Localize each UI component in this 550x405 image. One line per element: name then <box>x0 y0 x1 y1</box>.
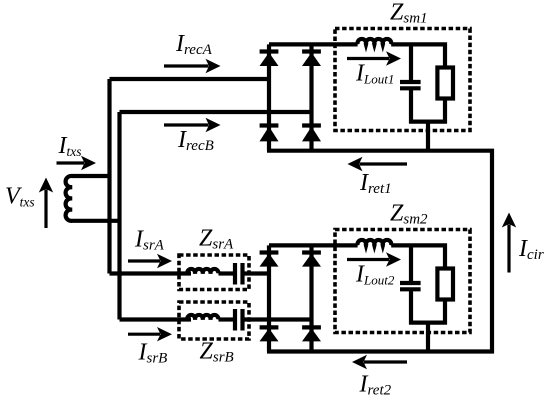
diode D6 bottom bridge upper-right <box>302 253 321 267</box>
arrow ILout1 <box>347 51 401 65</box>
resistor R2 <box>437 269 453 300</box>
svg-text:Vtxs: Vtxs <box>5 184 35 210</box>
arrow Icir <box>502 213 516 273</box>
wire: bus B (node B vertical) <box>117 112 121 320</box>
diode D4 top bridge lower-right <box>302 126 321 142</box>
inductor LsrB <box>187 315 218 320</box>
wire: bottom bridge positive rail into Zsm2 <box>269 243 358 247</box>
wire: ZsrB output to bottom bridge right leg <box>245 317 312 321</box>
arrow IsrA <box>128 254 172 268</box>
wire: top bridge left leg <box>267 44 271 150</box>
svg-text:ZsrB: ZsrB <box>200 339 234 366</box>
capacitor CsrA <box>235 263 243 285</box>
svg-text:Itxs: Itxs <box>58 133 82 159</box>
wire: Zsm1 bottom joining wire <box>409 119 447 123</box>
wire: Zsm2 bottom joining wire <box>409 321 447 325</box>
wire: top bridge right leg <box>309 44 313 150</box>
capacitor C2 <box>400 283 421 289</box>
svg-text:Iret1: Iret1 <box>359 170 392 197</box>
inductor Lout1 <box>357 39 391 44</box>
wire: LsrB to CsrB <box>219 317 234 321</box>
inductor Lout2 <box>357 240 391 245</box>
capacitor C1 <box>400 82 421 88</box>
dashed box Zsm1 <box>335 29 470 131</box>
wire: Lout1 to node, cap branch, resistor branch top <box>391 44 445 67</box>
arrow Iret2 <box>352 355 407 369</box>
diode D1 top bridge upper-left <box>260 52 279 67</box>
wire: bus A (node A vertical) <box>107 79 111 274</box>
wire: capacitor C1 top lead <box>409 44 413 80</box>
svg-text:ILout2: ILout2 <box>355 262 395 288</box>
dashed box ZsrA <box>179 255 249 290</box>
wire: IsrA feed into ZsrA <box>110 271 192 275</box>
svg-text:IrecA: IrecA <box>175 31 213 58</box>
wire: LsrA to CsrA <box>219 271 234 275</box>
wire: resistor R2 bottom lead <box>443 300 447 325</box>
wire: top bridge positive rail into Zsm1 <box>269 42 358 46</box>
wire: IsrB feed into ZsrB <box>120 317 192 321</box>
wire: bottom bridge left leg <box>267 245 271 351</box>
diode D3 top bridge lower-left <box>260 126 279 142</box>
diode D7 bottom bridge lower-left <box>260 327 279 341</box>
arrow IrecB <box>164 118 221 132</box>
svg-text:ZsrA: ZsrA <box>199 226 234 253</box>
transformer secondary coil Ltxs <box>66 176 122 221</box>
wire: Zsm2 output down to Iret2 rail <box>426 323 430 352</box>
wire: Iret1 rail / Icir bus / Iret2 rail <box>267 151 492 352</box>
svg-text:IrecB: IrecB <box>177 127 214 154</box>
capacitor CsrB <box>235 309 243 331</box>
svg-text:Zsm1: Zsm1 <box>390 0 428 27</box>
arrow IsrB <box>128 327 172 341</box>
wire: resistor R1 bottom lead <box>443 99 447 124</box>
diode D2 top bridge upper-right <box>302 52 321 67</box>
wire: capacitor C2 top lead <box>409 245 413 281</box>
wire: capacitor C2 bottom lead <box>409 289 413 324</box>
svg-text:IsrA: IsrA <box>134 227 165 254</box>
wire: Zsm1 output down to Iret1 rail <box>426 122 430 151</box>
arrow Iret1 <box>348 157 408 171</box>
wire: IrecB feed to top bridge right leg <box>120 110 312 114</box>
inductor LsrA <box>187 269 218 274</box>
wire: Lout2 to node, resistor branch top <box>391 245 445 268</box>
wire: ZsrA output to bottom bridge left leg <box>245 271 270 275</box>
arrow ILout2 <box>347 252 401 266</box>
diode D5 bottom bridge upper-left <box>260 253 279 267</box>
dashed box Zsm2 <box>335 230 470 333</box>
arrow Vtxs <box>39 178 53 229</box>
arrow IrecA <box>164 59 221 73</box>
svg-text:Icir: Icir <box>518 236 544 263</box>
resistor R1 <box>437 68 453 99</box>
wire: capacitor C1 bottom lead <box>409 88 413 123</box>
wire: bottom bridge right leg <box>309 245 313 351</box>
svg-text:IsrB: IsrB <box>138 340 168 367</box>
arrow Itxs <box>57 156 97 170</box>
svg-text:Zsm2: Zsm2 <box>390 201 428 228</box>
dashed box ZsrB <box>179 302 249 339</box>
diode D8 bottom bridge lower-right <box>302 327 321 341</box>
svg-text:Iret2: Iret2 <box>359 372 392 399</box>
wire: IrecA feed to top bridge left leg <box>110 77 270 81</box>
